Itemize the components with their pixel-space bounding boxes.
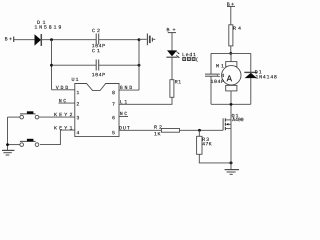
- wire OUT pin 5 to R2: [119, 129, 161, 131]
- ground right: [225, 170, 239, 175]
- diode D2 1N4148 flyback: [244, 53, 257, 104]
- node junction dot R4/top rail: [229, 52, 232, 55]
- svg-text:4: 4: [76, 130, 79, 136]
- resistor R2 body: [161, 129, 179, 133]
- node junction dot switch rail: [6, 143, 9, 146]
- svg-text:A: A: [227, 74, 233, 84]
- svg-text:7: 7: [112, 102, 115, 108]
- wire R4 to top rail: [230, 46, 232, 54]
- wire left vertical rail: [51, 40, 53, 90]
- svg-text:R2: R2: [154, 125, 162, 131]
- svg-text:L1: L1: [120, 99, 128, 105]
- wire B+ to LED: [171, 33, 173, 51]
- capacitor C2 plates: [96, 34, 99, 45]
- svg-text:8: 8: [112, 90, 115, 96]
- node junction dot C1 right: [138, 64, 141, 67]
- capacitor C4 on left rail: [205, 53, 218, 104]
- svg-text:KEY1: KEY1: [54, 125, 73, 131]
- svg-text:OUT: OUT: [119, 125, 130, 131]
- svg-text:1K: 1K: [154, 131, 161, 137]
- switch S2 bottom pushbutton: [8, 139, 39, 147]
- label green CJK glyphs under Led1: [182, 57, 198, 63]
- wire LED to R1: [171, 57, 173, 79]
- node B+ top center: [227, 5, 235, 7]
- ground left: [2, 150, 14, 155]
- svg-text:2: 2: [76, 102, 79, 108]
- node B+ above LED: [168, 32, 176, 34]
- transistor Q1 MOSFET: [223, 118, 231, 130]
- diode D1 1N5819: [35, 34, 42, 46]
- wire Q1 drain/source vertical: [230, 104, 232, 120]
- svg-text:B+: B+: [5, 37, 12, 43]
- wire B+ to D1 anode: [14, 39, 35, 41]
- node junction dot C2 right: [138, 38, 141, 41]
- wire L1 pin 7 to R1: [119, 97, 172, 104]
- svg-text:104P: 104P: [92, 72, 106, 78]
- wire GND pin 8: [119, 89, 139, 91]
- LED Led1: [166, 50, 179, 58]
- svg-text:VDD: VDD: [56, 85, 69, 91]
- svg-text:R4: R4: [233, 26, 241, 32]
- wire NC pin 2 stub: [59, 102, 75, 104]
- op-amp U1 IC body with notch: [75, 84, 119, 137]
- wire motor top rail: [211, 52, 251, 54]
- svg-text:U1: U1: [72, 77, 79, 83]
- svg-text:1: 1: [76, 90, 79, 96]
- svg-text:NC: NC: [59, 98, 67, 104]
- wire NC pin 6 stub: [119, 116, 128, 118]
- resistor R4 body: [229, 25, 233, 46]
- svg-text:A400: A400: [232, 117, 244, 123]
- svg-text:104P: 104P: [211, 79, 225, 85]
- svg-text:1N4148: 1N4148: [255, 74, 277, 80]
- wire C2 right to rail: [99, 39, 139, 41]
- svg-text:47K: 47K: [202, 141, 212, 147]
- svg-text:5: 5: [112, 130, 115, 136]
- svg-text:M1: M1: [216, 63, 224, 69]
- battery B1 symbol: [147, 34, 155, 46]
- wire switch left rail: [7, 117, 9, 150]
- svg-text:6: 6: [112, 115, 115, 121]
- node junction dot motor bottom: [230, 103, 233, 106]
- wire KEY2 pin 3: [39, 116, 75, 118]
- node junction dot C1 left: [50, 64, 53, 67]
- wire B+ to R4: [230, 6, 232, 24]
- svg-text:R1: R1: [175, 79, 182, 85]
- wire C1 right to rail: [99, 64, 139, 66]
- wire R3 bottom to ground node: [199, 154, 231, 163]
- resistor R3 body: [197, 136, 202, 154]
- capacitor C1 plates: [96, 60, 99, 71]
- wire rail to C1 left plate: [52, 64, 97, 66]
- svg-text:(: (: [195, 57, 198, 63]
- wire rail to battery symbol: [139, 38, 147, 40]
- svg-text:3: 3: [76, 115, 79, 121]
- motor M1: [222, 53, 241, 104]
- node junction dot R3 top: [198, 129, 201, 132]
- node B+ left terminal: [13, 37, 15, 43]
- svg-text:B+: B+: [227, 2, 234, 8]
- node junction dot source/ground: [230, 161, 233, 164]
- svg-text:NC: NC: [120, 111, 128, 117]
- wire VDD pin 1: [52, 89, 75, 91]
- wire R3 top stem: [198, 130, 200, 136]
- wire motor bottom rail: [211, 103, 251, 105]
- svg-text:1N5819: 1N5819: [34, 25, 61, 31]
- svg-text:GND: GND: [120, 85, 133, 91]
- svg-text:C2: C2: [92, 28, 100, 34]
- wire D1 to C2 left plate: [41, 39, 96, 41]
- wire KEY1 pin 4 jog: [40, 130, 75, 145]
- wire right vertical rail to GND pin: [138, 40, 140, 90]
- resistor R1 body: [170, 80, 174, 98]
- switch S1 top pushbutton: [8, 111, 39, 119]
- node junction dot top-left rail: [50, 38, 53, 41]
- wire R2 to Q1 gate: [180, 129, 224, 131]
